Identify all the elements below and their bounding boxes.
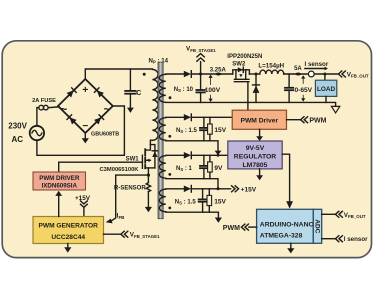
chevrons V_FB_OUT top <box>338 71 345 77</box>
node LOAD tap <box>323 73 326 76</box>
svg-text:0-65V: 0-65V <box>294 87 312 94</box>
phase dot Ns:10 <box>169 96 172 99</box>
capacitor cell3 <box>200 155 208 178</box>
svg-text:REGULATOR: REGULATOR <box>234 154 277 161</box>
riser V_FB_STAGE1 <box>200 62 202 74</box>
wire primary bottom to SW1 drain <box>145 140 152 150</box>
svg-text:GBU608TB: GBU608TB <box>91 132 119 138</box>
diode D3 <box>184 152 192 159</box>
svg-text:SW2: SW2 <box>232 62 246 68</box>
svg-text:R-SENSOR: R-SENSOR <box>114 186 146 192</box>
node SW1 source junction <box>147 174 150 177</box>
secondary winding Ns:1 (cell3) <box>159 156 165 179</box>
svg-text:PWM: PWM <box>223 225 240 232</box>
svg-text:3.25A: 3.25A <box>210 68 227 74</box>
box PWM GENERATOR UCC28C44 <box>33 217 104 244</box>
phase dot cell2 <box>168 135 171 138</box>
svg-text:9V: 9V <box>214 165 223 172</box>
SW2 body diode <box>238 67 244 72</box>
wire cell2 top <box>166 116 184 118</box>
SW1 body diode <box>150 145 157 168</box>
svg-text:UCC28C44: UCC28C44 <box>51 234 85 241</box>
chevrons V_FB_STAGE1 <box>121 231 128 237</box>
box 9V-5V REGULATOR LM7805 <box>228 141 282 169</box>
resistor box cell3 <box>208 155 213 178</box>
node freewheel tap <box>255 73 258 76</box>
svg-text:~: ~ <box>60 104 67 116</box>
wire cell1 top <box>166 73 184 75</box>
wire cell4 top <box>166 188 184 190</box>
wire D2 to PWM driver <box>191 116 232 118</box>
wire I_FB from sense node to PWM generator <box>111 175 148 221</box>
svg-text:PWM GENERATOR: PWM GENERATOR <box>38 223 98 230</box>
box PWM DRIVER IXDN609SIA <box>33 172 86 190</box>
wire V_FB_STAGE1 from PWM generator <box>104 233 121 235</box>
svg-text:+: + <box>82 84 88 96</box>
chevrons PWM right <box>301 117 308 123</box>
arrow PWM generator to PWM driver <box>55 191 62 217</box>
svg-text:NS : 1: NS : 1 <box>176 166 193 172</box>
svg-text:L=154µH: L=154µH <box>258 62 284 69</box>
chevrons +15V <box>232 186 239 192</box>
resistor R-SENSOR <box>146 175 150 207</box>
diode D1 <box>184 71 192 78</box>
ground arrow below bridge <box>82 133 89 143</box>
svg-text:15V: 15V <box>214 198 226 205</box>
wire D4 to +15V chevron <box>191 188 230 190</box>
measure arrow 100V <box>209 75 213 103</box>
node V_FB_STAGE1 tap <box>199 73 202 76</box>
svg-text:NS : 1.5: NS : 1.5 <box>176 128 198 134</box>
capacitor cell4 <box>199 189 207 212</box>
ground arrow below capacitor C <box>127 108 134 113</box>
capacitor 0-65V <box>285 74 293 102</box>
ground arrow below PWM generator <box>64 244 71 253</box>
svg-text:2A FUSE: 2A FUSE <box>32 98 56 104</box>
node cell3 top junction <box>217 154 220 157</box>
svg-text:ADC: ADC <box>314 219 321 233</box>
wire PWM label to arduino <box>249 226 257 228</box>
AC source V1 230V <box>30 126 44 140</box>
capacitor cell2 <box>200 117 208 141</box>
arrow PWM driver to regulator <box>256 129 263 141</box>
diode bridge top-left <box>67 88 77 98</box>
wire cell2 bottom <box>166 141 218 151</box>
transformer core <box>158 62 163 218</box>
fuse 5A bead <box>295 73 301 76</box>
wire fuse to bridge <box>49 106 59 109</box>
svg-text:100V: 100V <box>205 87 221 94</box>
wire regulator output to arduino <box>282 154 289 201</box>
wire ADC to I sensor label <box>322 238 335 240</box>
diode D2 <box>184 114 192 121</box>
wire ADC to V_FB_OUT label <box>322 213 335 215</box>
svg-text:NS : 10: NS : 10 <box>174 87 194 93</box>
box ADC <box>313 209 321 243</box>
secondary winding Ns:1.5 (cell4) <box>159 189 165 212</box>
enclosure frame <box>2 41 371 258</box>
phase dot cell4 <box>168 207 171 210</box>
svg-text:IPP200N25N: IPP200N25N <box>227 54 262 60</box>
svg-text:5A: 5A <box>294 66 302 72</box>
wire D1 to SW2 <box>191 73 233 75</box>
ground arrow cell4 <box>215 218 222 223</box>
svg-text:IXDN609SIA: IXDN609SIA <box>42 183 78 190</box>
resistor box cell2 <box>208 117 213 141</box>
box LOAD <box>315 80 336 96</box>
ground triangle output <box>331 106 339 113</box>
wire LOAD tap down <box>324 74 326 80</box>
secondary winding Ns:10 <box>159 74 165 102</box>
transformer primary winding Np:14 <box>152 69 158 140</box>
wire SW2 to inductor <box>249 73 259 75</box>
inductor L=154uH <box>260 70 284 74</box>
arrow I sensor <box>305 67 328 71</box>
chevrons PWM arduino <box>241 224 248 230</box>
wire cell3 bottom to +15V node <box>166 179 218 189</box>
sensor node circle <box>308 71 314 77</box>
wire cell3 top <box>166 154 184 156</box>
ground arrow below R-SENSOR <box>145 207 152 212</box>
svg-text:C: C <box>136 90 141 97</box>
chevrons I sensor bottom <box>335 236 342 242</box>
fuse F1 2A <box>39 105 48 110</box>
wire SW1 source to sense node <box>147 168 149 175</box>
secondary winding Ns:1.5 (cell2) <box>159 118 165 141</box>
svg-text:9V-5V: 9V-5V <box>246 145 265 152</box>
diode bridge bottom-left <box>67 115 77 125</box>
diode D4 <box>184 186 192 193</box>
wire bridge plus to top rail <box>85 69 152 79</box>
wire AC bottom loop to bridge right <box>37 106 125 155</box>
measure arrow 0-65V <box>301 75 305 101</box>
secondary ground rail <box>166 102 336 106</box>
wire PWM driver to PWM label <box>287 119 301 121</box>
svg-text:C3M0065100K: C3M0065100K <box>100 167 140 173</box>
fuse 3.25A bead <box>216 73 222 76</box>
wire SW2 gate to PWM driver <box>247 82 249 111</box>
svg-text:−: − <box>82 121 88 132</box>
svg-text:I sensor: I sensor <box>344 236 368 243</box>
svg-text:~: ~ <box>104 104 111 116</box>
label 230V AC <box>8 121 27 144</box>
capacitor C bulk <box>125 69 135 108</box>
wire sensor to V_FB_OUT <box>314 73 338 75</box>
MOSFET SW1 C3M0065100K <box>142 149 155 168</box>
svg-text:ATMEGA-328: ATMEGA-328 <box>260 233 303 240</box>
bridge polarity labels <box>60 84 110 132</box>
wire AC top to fuse <box>37 108 39 126</box>
svg-text:LOAD: LOAD <box>317 86 335 93</box>
wire inductor to sensor <box>284 73 309 75</box>
svg-text:NS : 1.5: NS : 1.5 <box>175 199 197 205</box>
svg-text:I sensor: I sensor <box>305 61 329 68</box>
svg-text:PWM: PWM <box>309 117 326 124</box>
arrow cell2 to cell3 <box>215 151 222 156</box>
capacitor 100V cell1 <box>196 74 204 102</box>
svg-text:+15V: +15V <box>241 186 257 193</box>
svg-text:ARDUINO-NANO: ARDUINO-NANO <box>260 222 314 229</box>
chevron arrow up V_FB_STAGE1 <box>197 54 204 62</box>
diode bridge top-right <box>94 88 104 98</box>
svg-text:15V: 15V <box>214 127 226 134</box>
arrowhead I_FB into PWM generator <box>106 219 113 224</box>
svg-text:AC: AC <box>12 135 24 144</box>
resistor box cell4 <box>207 189 212 212</box>
bridge rectifier GBU608TB <box>58 79 113 133</box>
phase dot cell3 <box>168 173 171 176</box>
wire D3 to regulator <box>191 154 228 156</box>
MOSFET SW2 IPP200N25N <box>233 70 250 82</box>
svg-text:230V: 230V <box>8 121 27 130</box>
freewheel diode <box>253 74 260 102</box>
ground arrow below arduino <box>287 243 294 253</box>
svg-text:LM7805: LM7805 <box>243 162 268 169</box>
svg-text:+15V: +15V <box>75 195 91 202</box>
diode bridge bottom-right <box>94 115 104 125</box>
svg-text:PWM DRIVER: PWM DRIVER <box>39 175 80 182</box>
primary phase dot <box>143 73 146 76</box>
wire gate drive from PWM driver to SW1 gate <box>59 162 143 172</box>
arrowhead into arduino <box>286 201 293 208</box>
box ARDUINO-NANO ATMEGA-328 <box>257 209 314 243</box>
svg-text:PWM Driver: PWM Driver <box>241 117 279 124</box>
node +15V junction <box>217 187 220 190</box>
wire cell4 bottom <box>166 212 219 217</box>
ground arrow below regulator <box>256 169 263 181</box>
box PWM Driver right <box>232 110 286 129</box>
wire LOAD bottom <box>325 96 327 102</box>
chevron arrow down +15V <box>81 201 88 217</box>
chevrons V_FB_OUT bottom <box>335 211 342 217</box>
